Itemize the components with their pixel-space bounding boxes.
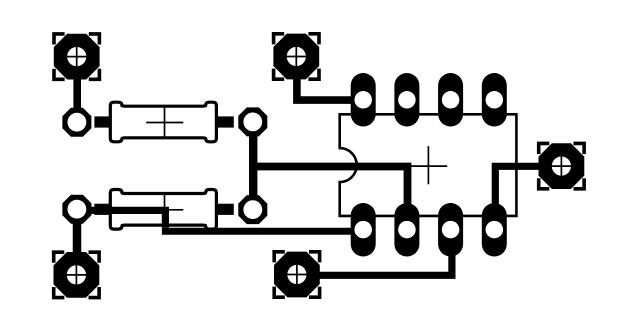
wire net7: pad P3 left then down to U1 pin 5 bbox=[495, 166, 561, 225]
op-amp U1 pin 5 pad (bottom row) bbox=[482, 203, 507, 257]
wire net1: pad P1 down to R1 pad 1 bbox=[73, 60, 81, 116]
resistor R1 right lead stub bbox=[216, 116, 233, 127]
op-amp U1 package outline with pin-1 notch bbox=[340, 114, 517, 216]
resistor R2 body outline bbox=[110, 190, 216, 230]
wire net6: pad P5 right then up to U1 pin 6 bbox=[297, 240, 452, 275]
wire net2: R1 pad 2 down to R2 pad 2 bbox=[249, 122, 257, 210]
op-amp U1 pin 1 pad (top row) bbox=[351, 73, 376, 127]
resistor R2 right lead stub bbox=[216, 204, 233, 215]
resistor R1 body outline bbox=[110, 102, 216, 142]
op-amp U1 pin 7 pad (bottom row) bbox=[394, 203, 419, 257]
resistor R2 left lead stub bbox=[94, 204, 110, 215]
wire net5: R2 pad 1 down to pad P4 bbox=[73, 214, 82, 270]
wire net2 branch: across U1 notch then down to U1 pin 7 bbox=[253, 167, 407, 211]
op-amp U1 pin 8 pad (bottom row) bbox=[351, 203, 376, 257]
pad R1-1 ring pad bbox=[62, 108, 91, 137]
wire net4: pad P2 down then right to U1 pin 1 bbox=[297, 60, 363, 100]
op-amp U1 anchor cross bbox=[410, 146, 448, 184]
pad P1 (top-left) octagonal pad bbox=[54, 34, 100, 80]
pad P2 (top-centre) octagonal pad bbox=[273, 34, 319, 80]
wire net3b: long run right to U1 pin 8 bbox=[162, 228, 363, 235]
pad R2-2 ring pad bbox=[238, 195, 267, 224]
pad P1 (top-left) courtyard corner brackets bbox=[52, 32, 101, 81]
op-amp U1 pin 3 pad (top row) bbox=[438, 73, 463, 127]
op-amp U1 pin 6 pad (bottom row) bbox=[438, 203, 463, 257]
pad P2 (top-centre) courtyard corner brackets bbox=[272, 32, 321, 81]
resistor R1 anchor cross bbox=[146, 106, 183, 138]
op-amp U1 pin 2 pad (top row) bbox=[394, 73, 419, 127]
pad P4 (bottom-left) octagonal pad bbox=[54, 252, 100, 298]
pad R1-2 ring pad bbox=[238, 107, 267, 136]
pad P5 (bottom-centre) courtyard corner brackets bbox=[272, 250, 321, 299]
op-amp U1 pin 4 pad (top row) bbox=[482, 73, 507, 127]
pad P3 (right) courtyard corner brackets bbox=[537, 142, 586, 191]
pad R2-1 ring pad bbox=[62, 195, 91, 224]
wire net3a: R2 pad 1 through body then step down bbox=[77, 210, 166, 227]
pad P5 (bottom-centre) octagonal pad bbox=[274, 252, 320, 298]
resistor R1 left lead stub bbox=[94, 116, 110, 127]
pad P3 (right) octagonal pad bbox=[539, 143, 585, 189]
resistor R2 anchor cross bbox=[146, 194, 183, 226]
pad P4 (bottom-left) courtyard corner brackets bbox=[52, 250, 101, 299]
